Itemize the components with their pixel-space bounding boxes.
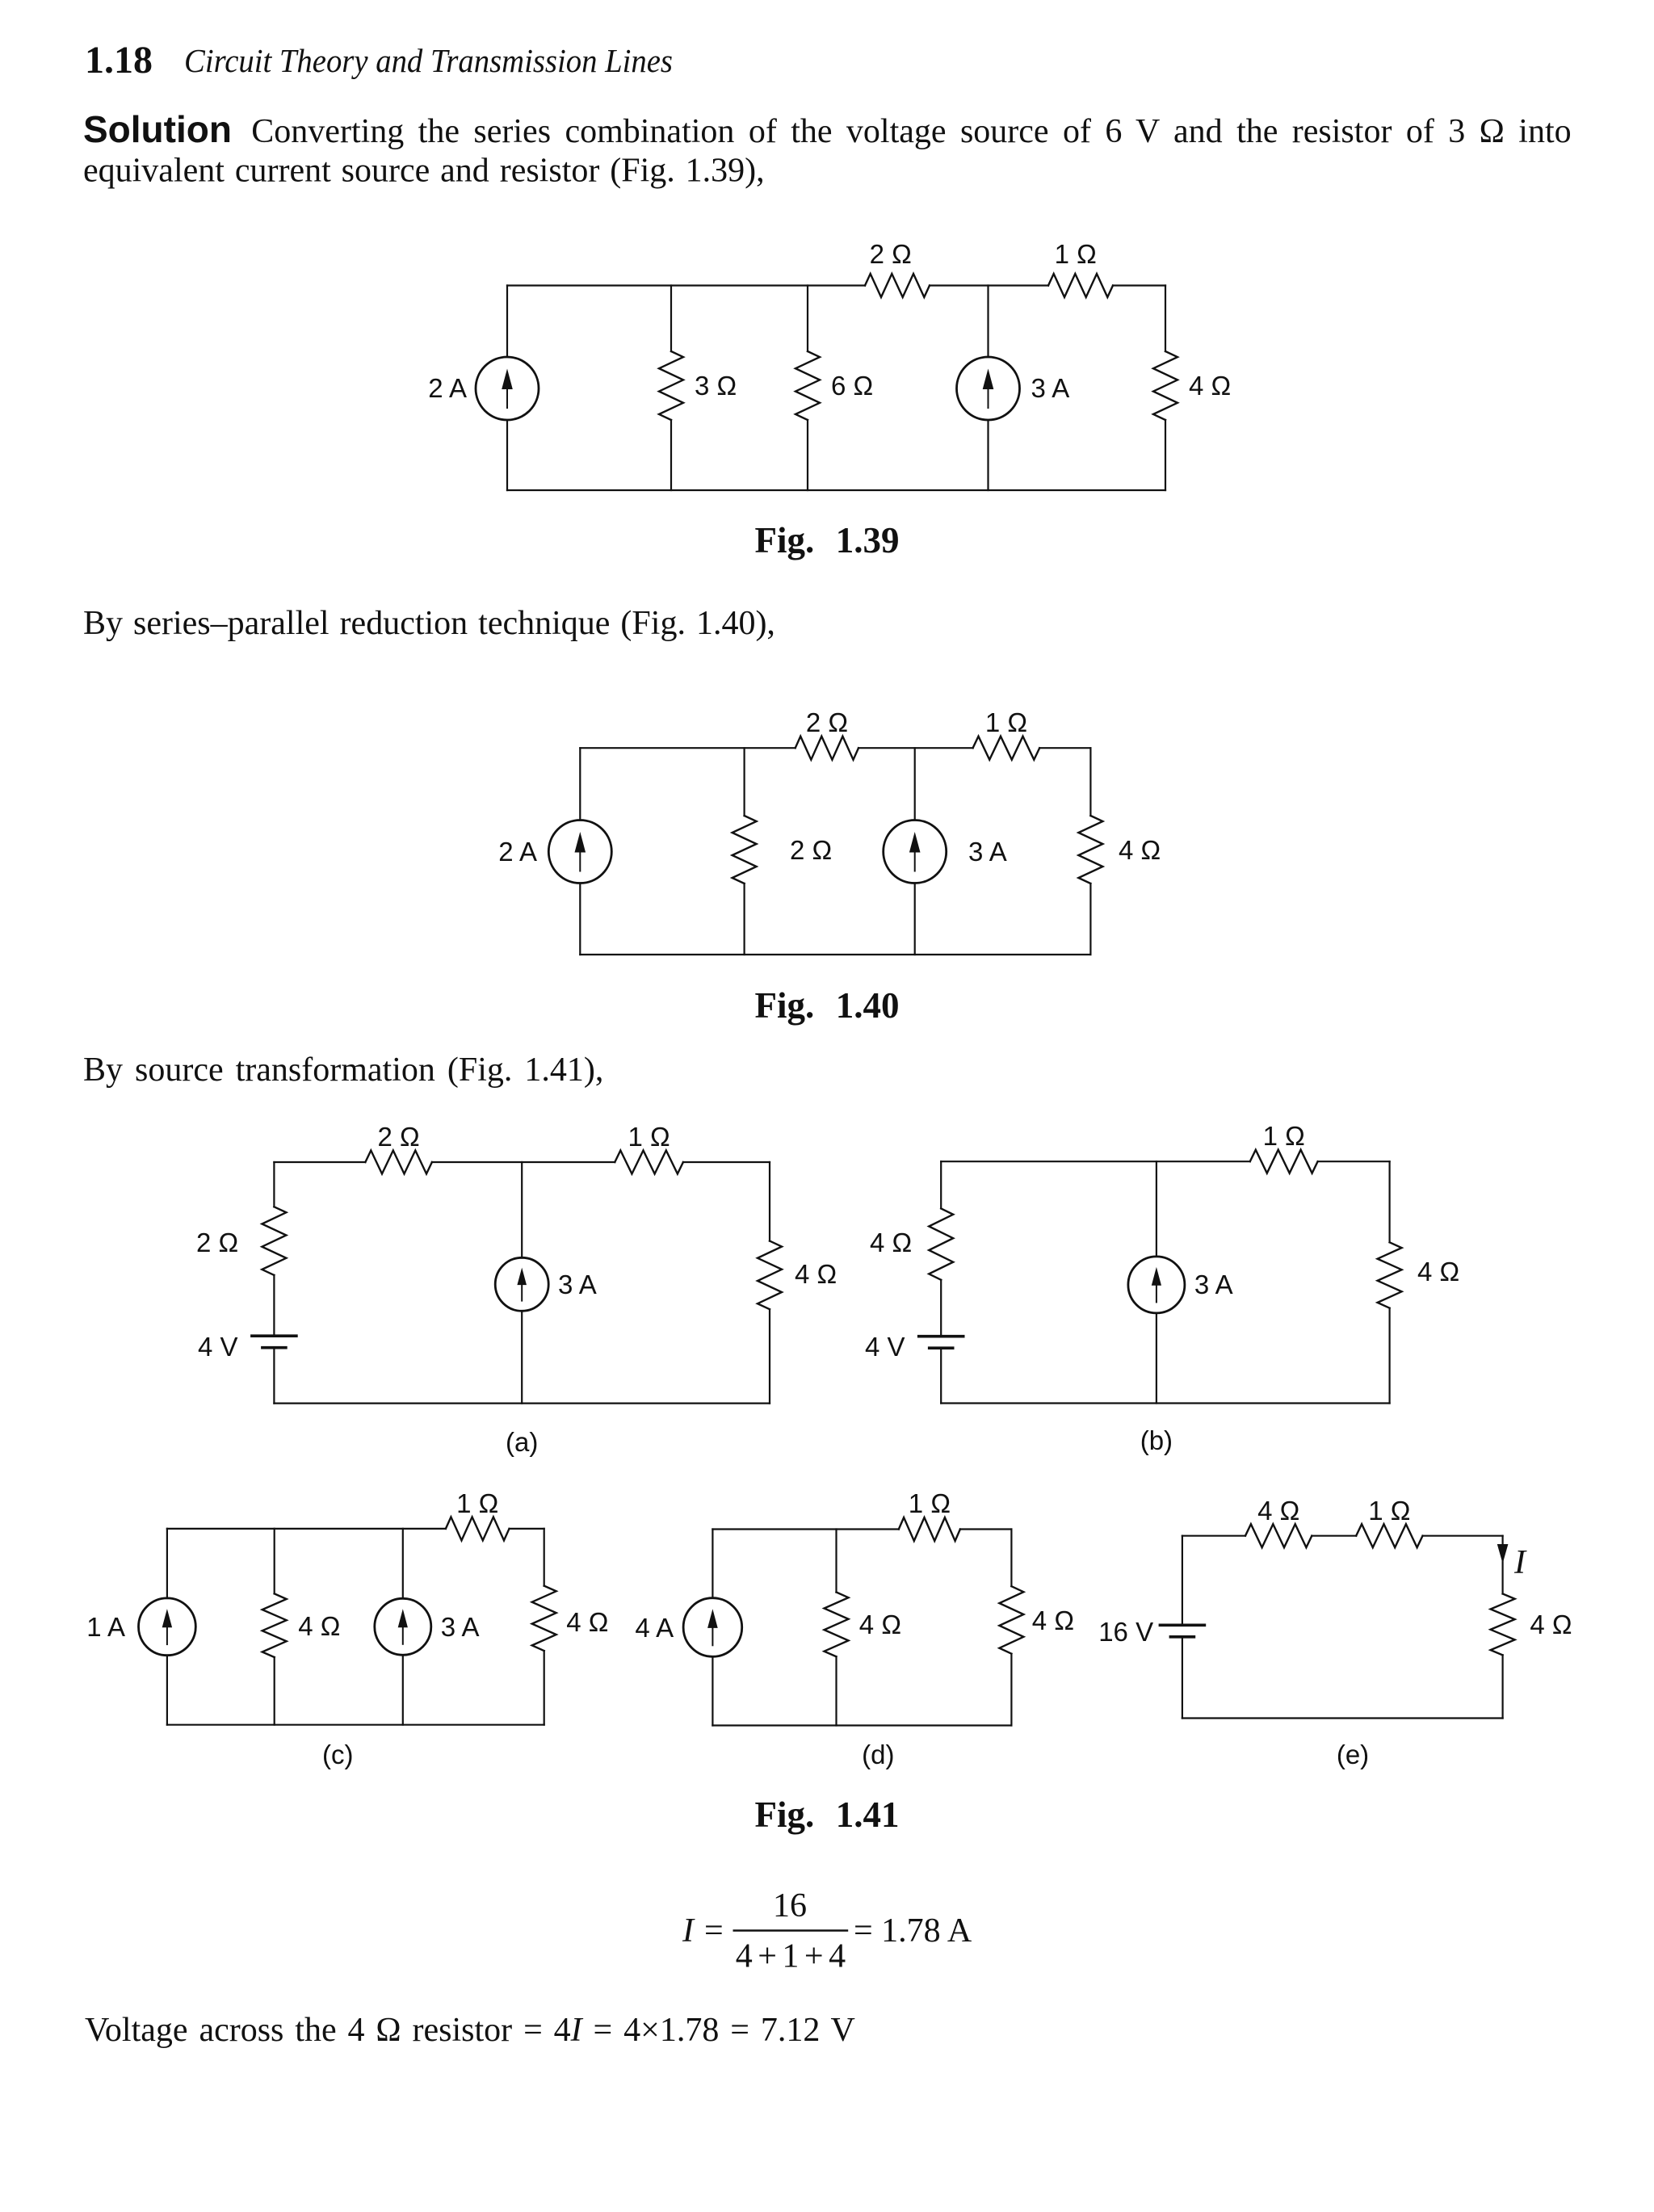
Fig 1.39 wire 6Ω branch upper bbox=[807, 286, 808, 352]
svg-text:Circuit Theory and Transmissio: Circuit Theory and Transmission Lines bbox=[184, 42, 673, 79]
Fig 1.41a wire left branch middle bbox=[273, 1275, 275, 1336]
Fig 1.41b resistor 4Ω vertical bbox=[929, 1208, 953, 1279]
Fig 1.39 wire 3A branch upper bbox=[987, 286, 989, 358]
Fig 1.41d wire top rail left segment bbox=[712, 1528, 898, 1530]
Fig 1.41e wire left branch lower bbox=[1182, 1637, 1183, 1719]
Fig 1.41d wire 4Ω branch lower bbox=[835, 1656, 837, 1725]
Fig 1.41e wire right branch lower bbox=[1501, 1655, 1503, 1718]
Fig 1.41a battery 4V bbox=[252, 1334, 296, 1337]
Fig 1.40 resistor 4Ω vertical bbox=[1078, 816, 1102, 884]
Fig 1.41e resistor 1Ω horizontal bbox=[1356, 1524, 1422, 1547]
Fig 1.40 wire left branch upper bbox=[579, 748, 581, 820]
Fig 1.41a wire right branch upper bbox=[769, 1162, 770, 1241]
svg-text:4 Ω: 4 Ω bbox=[1257, 1496, 1299, 1526]
svg-text:4 Ω: 4 Ω bbox=[1530, 1610, 1572, 1639]
Fig 1.39 wire left branch lower bbox=[506, 420, 508, 490]
svg-text:1 A: 1 A bbox=[86, 1612, 125, 1642]
Fig 1.41c wire 4Ω branch upper bbox=[274, 1529, 275, 1594]
Fig 1.41b wire middle branch lower bbox=[1156, 1313, 1157, 1404]
Fig 1.39 resistor 3Ω vertical bbox=[659, 351, 683, 420]
svg-text:Converting the series combinat: Converting the series combination of the… bbox=[251, 113, 1571, 150]
Fig 1.40 resistor 2Ω horizontal bbox=[796, 737, 858, 760]
svg-text:3 A: 3 A bbox=[1194, 1270, 1233, 1299]
Fig 1.39 resistor 4Ω vertical bbox=[1153, 351, 1178, 420]
svg-text:3 Ω: 3 Ω bbox=[695, 371, 737, 401]
svg-text:4 Ω: 4 Ω bbox=[795, 1259, 837, 1289]
svg-text:2 A: 2 A bbox=[498, 837, 537, 867]
Fig 1.39 wire right branch lower bbox=[1165, 420, 1166, 490]
Fig 1.41a resistor 1Ω horizontal bbox=[615, 1151, 683, 1174]
Fig 1.39 resistor 1Ω horizontal bbox=[1048, 274, 1113, 297]
Fig 1.41d wire left branch upper bbox=[712, 1530, 713, 1598]
Fig 1.39 wire left branch upper bbox=[506, 286, 508, 358]
svg-text:1 Ω: 1 Ω bbox=[628, 1122, 670, 1152]
Fig 1.41c wire 3A branch upper bbox=[402, 1529, 404, 1598]
Fig 1.41a wire left branch lower bbox=[273, 1348, 275, 1404]
Fig 1.41d resistor 4Ω vertical right bbox=[999, 1586, 1023, 1654]
Fig 1.39 current source 3A bbox=[957, 357, 1020, 420]
svg-text:(e): (e) bbox=[1337, 1740, 1369, 1769]
Fig 1.40 wire left branch lower bbox=[579, 884, 581, 955]
svg-text:4 Ω: 4 Ω bbox=[298, 1611, 340, 1641]
Fig 1.41b wire bottom rail bbox=[941, 1402, 1389, 1404]
Fig 1.41c wire bottom rail bbox=[167, 1724, 544, 1726]
svg-text:4 Ω: 4 Ω bbox=[859, 1610, 901, 1639]
svg-text:3 A: 3 A bbox=[441, 1612, 480, 1642]
svg-text:3 A: 3 A bbox=[1031, 373, 1070, 403]
Fig 1.41a wire bottom rail bbox=[274, 1402, 770, 1404]
Fig 1.39 wire top rail right segment bbox=[1113, 284, 1165, 286]
Fig 1.39 wire 3Ω branch lower bbox=[670, 420, 672, 490]
Fig 1.41c wire right branch upper bbox=[544, 1529, 545, 1586]
Fig 1.41b wire right branch lower bbox=[1388, 1308, 1390, 1404]
svg-text:4 Ω: 4 Ω bbox=[870, 1228, 912, 1257]
Fig 1.39 wire 6Ω branch lower bbox=[807, 420, 808, 490]
Fig 1.41c wire left branch upper bbox=[166, 1529, 168, 1598]
svg-text:By series–parallel reduction t: By series–parallel reduction technique (… bbox=[83, 605, 775, 642]
Fig 1.41d wire 4Ω branch upper bbox=[835, 1530, 837, 1593]
Fig 1.39 wire 3Ω branch upper bbox=[670, 286, 672, 352]
svg-text:4 Ω: 4 Ω bbox=[566, 1607, 608, 1637]
Fig 1.41b wire left branch upper bbox=[940, 1161, 942, 1208]
Fig 1.41c wire left branch lower bbox=[166, 1656, 168, 1725]
svg-text:4 V: 4 V bbox=[198, 1332, 238, 1362]
Fig 1.39 resistor 2Ω horizontal bbox=[865, 274, 930, 297]
Fig 1.41e wire right branch upper bbox=[1501, 1536, 1503, 1594]
Fig 1.41c wire 4Ω branch lower bbox=[274, 1657, 275, 1725]
Fig 1.41b resistor 1Ω horizontal bbox=[1250, 1150, 1318, 1173]
svg-text:4 Ω: 4 Ω bbox=[1032, 1605, 1074, 1635]
svg-text:1 Ω: 1 Ω bbox=[985, 707, 1027, 737]
svg-text:3 A: 3 A bbox=[968, 837, 1007, 867]
Fig 1.41b resistor 4Ω vertical right bbox=[1378, 1242, 1402, 1307]
svg-text:4 Ω: 4 Ω bbox=[1417, 1257, 1459, 1286]
Fig 1.41e wire top rail right segment bbox=[1423, 1535, 1503, 1537]
Fig 1.39 wire top rail middle segment bbox=[930, 284, 1048, 286]
Fig 1.41e resistor 4Ω vertical bbox=[1491, 1594, 1515, 1656]
Fig 1.41d wire bottom rail bbox=[712, 1724, 1011, 1726]
svg-text:Fig. 1.39: Fig. 1.39 bbox=[755, 520, 900, 560]
Fig 1.41e battery 16V bbox=[1160, 1624, 1204, 1627]
Fig 1.41d resistor 1Ω horizontal bbox=[899, 1517, 960, 1541]
Fig 1.41e wire top rail middle segment bbox=[1312, 1535, 1356, 1537]
svg-text:By source transformation (Fig.: By source transformation (Fig. 1.41), bbox=[83, 1051, 603, 1089]
Fig 1.41b wire top rail left segment bbox=[941, 1161, 1250, 1162]
Fig 1.41a wire top rail left segment bbox=[274, 1161, 365, 1163]
svg-text:2 Ω: 2 Ω bbox=[196, 1228, 238, 1257]
Fig 1.40 wire 3A branch lower bbox=[914, 884, 916, 955]
svg-text:2 Ω: 2 Ω bbox=[790, 835, 832, 865]
Fig 1.40 wire 3A branch upper bbox=[914, 748, 916, 820]
svg-text:Voltage across the 4 Ω resisto: Voltage across the 4 Ω resistor = 4I = 4… bbox=[85, 2012, 855, 2049]
svg-text:1 Ω: 1 Ω bbox=[456, 1488, 498, 1518]
Fig 1.41c wire top rail left segment bbox=[167, 1528, 446, 1530]
Fig 1.40 current source 3A bbox=[884, 821, 947, 884]
svg-text:=: = bbox=[704, 1912, 724, 1950]
Fig 1.41b wire top rail right segment bbox=[1318, 1161, 1390, 1162]
Fig 1.39 resistor 6Ω vertical bbox=[796, 351, 820, 420]
svg-text:1 Ω: 1 Ω bbox=[1368, 1496, 1410, 1526]
Fig 1.41d wire right branch lower bbox=[1010, 1654, 1012, 1726]
Fig 1.41b current source 3A bbox=[1128, 1257, 1185, 1313]
Fig 1.39 wire bottom rail bbox=[507, 489, 1165, 491]
Fig 1.40 wire bottom rail bbox=[580, 954, 1090, 955]
Fig 1.41e wire left branch upper bbox=[1182, 1536, 1183, 1626]
Fig 1.41b wire left branch middle bbox=[940, 1280, 942, 1337]
svg-text:6 Ω: 6 Ω bbox=[831, 371, 873, 401]
Fig 1.41c wire top rail right segment bbox=[510, 1528, 544, 1530]
Fig 1.40 wire top rail right segment bbox=[1039, 747, 1090, 749]
Fig 1.41a current source 3A bbox=[495, 1257, 548, 1311]
Fig 1.40 wire top rail middle segment bbox=[858, 747, 973, 749]
svg-text:1 Ω: 1 Ω bbox=[1263, 1121, 1305, 1151]
Fig 1.40 resistor 2Ω vertical bbox=[733, 816, 757, 884]
svg-text:4 A: 4 A bbox=[635, 1613, 674, 1643]
svg-text:2 A: 2 A bbox=[428, 373, 467, 403]
Fig 1.40 current source 2A bbox=[548, 821, 611, 884]
Fig 1.41a wire left branch upper bbox=[273, 1162, 275, 1207]
Fig 1.41a wire right branch lower bbox=[769, 1309, 770, 1403]
Fig 1.41c wire 3A branch lower bbox=[402, 1655, 404, 1724]
svg-text:I: I bbox=[682, 1912, 695, 1950]
svg-text:= 1.78 A: = 1.78 A bbox=[854, 1912, 972, 1950]
svg-text:2 Ω: 2 Ω bbox=[870, 239, 912, 269]
svg-text:1.18: 1.18 bbox=[85, 39, 153, 82]
Fig 1.41a wire middle branch lower bbox=[521, 1311, 523, 1403]
Fig 1.41e wire bottom rail bbox=[1182, 1717, 1503, 1719]
Fig 1.40 resistor 1Ω horizontal bbox=[973, 737, 1040, 760]
svg-text:4 + 1 + 4: 4 + 1 + 4 bbox=[736, 1938, 846, 1975]
svg-text:3 A: 3 A bbox=[558, 1270, 597, 1299]
Fig 1.41d wire left branch lower bbox=[712, 1656, 713, 1725]
Fig 1.41a wire top rail right segment bbox=[683, 1161, 770, 1163]
Fig 1.40 wire 2Ω branch upper bbox=[743, 748, 745, 816]
svg-text:equivalent current source and: equivalent current source and resistor (… bbox=[83, 153, 765, 190]
Fig 1.41a wire middle branch upper bbox=[521, 1162, 523, 1258]
svg-text:1 Ω: 1 Ω bbox=[909, 1488, 951, 1518]
Fig 1.41a resistor 2Ω horizontal bbox=[365, 1151, 432, 1174]
svg-text:Solution: Solution bbox=[83, 108, 232, 150]
Fig 1.41e resistor 4Ω horizontal bbox=[1245, 1524, 1312, 1547]
Fig 1.40 wire right branch upper bbox=[1089, 748, 1091, 816]
svg-text:Fig. 1.40: Fig. 1.40 bbox=[755, 985, 900, 1026]
Fig 1.41a resistor 4Ω vertical bbox=[758, 1241, 782, 1310]
Fig 1.41c current source 3A bbox=[375, 1598, 431, 1655]
Fig 1.41b battery 4V bbox=[919, 1335, 963, 1338]
svg-text:(b): (b) bbox=[1140, 1425, 1173, 1455]
Fig 1.41c current source 1A bbox=[139, 1598, 196, 1656]
Fig 1.41e wire top rail left segment bbox=[1182, 1535, 1245, 1537]
Fig 1.41c resistor 4Ω vertical bbox=[262, 1593, 287, 1657]
Fig 1.41e current arrow I bbox=[1497, 1544, 1509, 1564]
Fig 1.39 wire top rail left segment bbox=[507, 284, 865, 286]
Fig 1.41b wire right branch upper bbox=[1388, 1161, 1390, 1242]
svg-text:(c): (c) bbox=[322, 1740, 353, 1769]
Fig 1.41b wire middle branch upper bbox=[1156, 1161, 1157, 1257]
Fig 1.40 wire top rail left segment bbox=[580, 747, 795, 749]
Fig 1.41d resistor 4Ω vertical bbox=[825, 1593, 849, 1657]
Fig 1.41c resistor 4Ω vertical right bbox=[532, 1586, 556, 1652]
svg-text:Fig. 1.41: Fig. 1.41 bbox=[755, 1794, 900, 1835]
svg-text:1 Ω: 1 Ω bbox=[1055, 239, 1097, 269]
svg-text:I: I bbox=[1513, 1544, 1527, 1581]
Fig 1.41c wire right branch lower bbox=[544, 1651, 545, 1725]
Fig 1.41c resistor 1Ω horizontal bbox=[446, 1517, 510, 1540]
Fig 1.41d current source 4A bbox=[683, 1598, 742, 1657]
svg-text:16: 16 bbox=[773, 1887, 807, 1924]
Fig 1.39 wire right branch upper bbox=[1165, 286, 1166, 352]
svg-text:16 V: 16 V bbox=[1098, 1617, 1153, 1647]
svg-text:4 Ω: 4 Ω bbox=[1189, 371, 1231, 401]
Fig 1.39 wire 3A branch lower bbox=[987, 420, 989, 490]
svg-text:(a): (a) bbox=[506, 1427, 538, 1457]
Fig 1.41d wire top rail right segment bbox=[960, 1528, 1012, 1530]
Fig 1.41a resistor 2Ω vertical bbox=[262, 1207, 286, 1275]
svg-text:2 Ω: 2 Ω bbox=[806, 707, 848, 737]
Fig 1.41d wire right branch upper bbox=[1010, 1530, 1012, 1587]
svg-text:(d): (d) bbox=[862, 1740, 894, 1769]
Fig 1.39 current source 2A bbox=[476, 357, 539, 420]
Fig 1.40 wire 2Ω branch lower bbox=[743, 884, 745, 955]
Fig 1.41b wire left branch lower bbox=[940, 1348, 942, 1403]
svg-text:4 Ω: 4 Ω bbox=[1119, 835, 1161, 865]
svg-text:4 V: 4 V bbox=[865, 1332, 905, 1362]
Fig 1.40 wire right branch lower bbox=[1089, 884, 1091, 955]
Fig 1.41a wire top rail middle segment bbox=[432, 1161, 615, 1163]
svg-text:2 Ω: 2 Ω bbox=[377, 1122, 419, 1152]
